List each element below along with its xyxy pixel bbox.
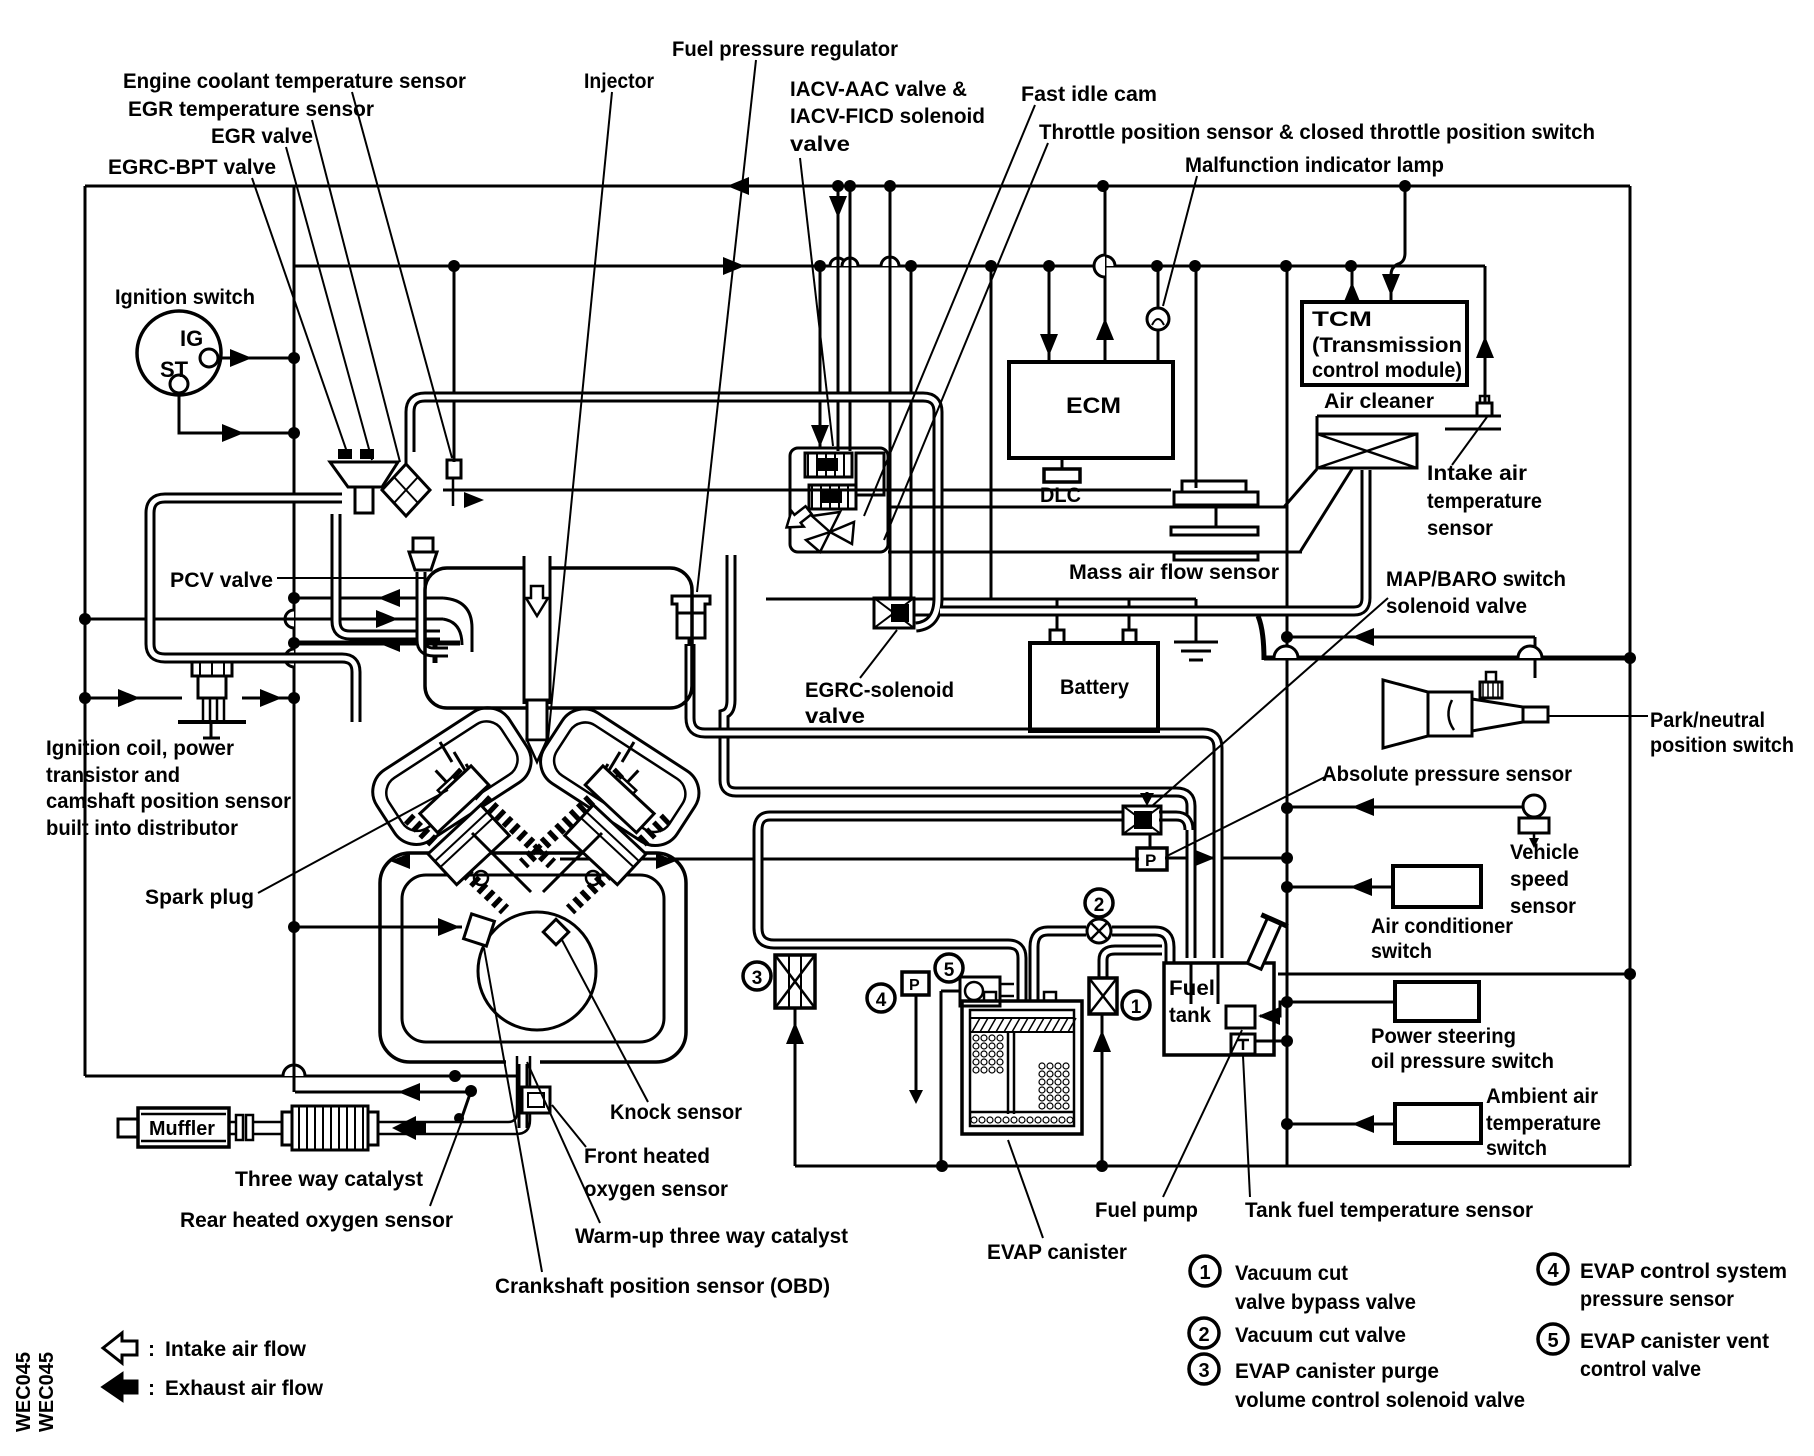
svg-text:3: 3 (1198, 1360, 1209, 1382)
ECM box (1009, 362, 1173, 458)
legend circled 4 (1538, 1254, 1568, 1284)
transmission tail shaft (1523, 707, 1548, 722)
wire x=1352 TCM to bus (1351, 267, 1354, 302)
hop of x=294 over y=658 (285, 649, 294, 667)
svg-text:1: 1 (1199, 1262, 1210, 1284)
svg-text:Three way catalyst: Three way catalyst (235, 1168, 423, 1191)
wire x=1196 to mass air flow sensor (1195, 266, 1198, 488)
svg-text:control valve: control valve (1580, 1358, 1701, 1381)
air conditioner switch box (1393, 866, 1481, 907)
EGRC-solenoid valve wire stub y=615 (913, 614, 941, 617)
tank fuel temperature sensor wire y=1041 (1255, 1040, 1287, 1043)
distributor ground bar (178, 720, 246, 724)
wire y=887 to air conditioner switch (1287, 886, 1393, 889)
leader front heated oxygen sensor (552, 1105, 586, 1147)
vapor hose canister to vacuum cut valve (1034, 931, 1086, 1001)
svg-text:1: 1 (1131, 997, 1142, 1018)
hops on y=658 (1274, 646, 1298, 658)
intake air flow white arrow at throttle (780, 502, 814, 535)
svg-text:Injector: Injector (584, 70, 654, 93)
svg-text:Mass air flow sensor: Mass air flow sensor (1069, 561, 1279, 584)
throttle body outline (790, 448, 888, 552)
MAP/BARO switch solenoid valve body (1123, 806, 1161, 834)
hop of y=1076 over x=294 (283, 1065, 305, 1076)
air cleaner element box (1317, 434, 1417, 468)
battery box (1030, 643, 1158, 731)
EGR valve stem line (405, 452, 408, 464)
leader fuel pump (1163, 1030, 1242, 1197)
circled 5 (935, 954, 963, 982)
wire y=1124 to ambient air temperature switch (1287, 1123, 1395, 1126)
junction dots on top border (832, 180, 844, 192)
wire x=1485 to intake air temperature sensor (1484, 266, 1487, 404)
svg-text:control module): control module) (1312, 359, 1462, 382)
svg-text:Knock sensor: Knock sensor (610, 1101, 742, 1124)
hops on y=266 (830, 258, 846, 266)
svg-text::: : (148, 1377, 155, 1400)
svg-text:Warm-up three way catalyst: Warm-up three way catalyst (575, 1225, 848, 1248)
vehicle speed sensor dial (1523, 795, 1545, 817)
tank fuel temperature sensor body (1231, 1034, 1255, 1054)
ground symbol right of battery (1195, 599, 1198, 642)
svg-text:Fuel: Fuel (1169, 977, 1215, 1000)
IACV-FICD solenoid (809, 485, 856, 509)
wire x=1405 top border to TCM (1391, 186, 1405, 302)
ignition switch ST terminal (170, 375, 188, 393)
duct curve to air cleaner upper (1284, 469, 1317, 507)
svg-text:sensor: sensor (1510, 895, 1576, 918)
svg-text:2: 2 (1198, 1324, 1209, 1346)
leader malfunction indicator lamp (1163, 176, 1197, 306)
svg-text:position switch: position switch (1650, 734, 1794, 757)
svg-text:IACV-FICD solenoid: IACV-FICD solenoid (790, 105, 985, 128)
EVAP canister outer shell (962, 1001, 1082, 1134)
legend exhaust air flow arrow (103, 1374, 137, 1400)
svg-text::: : (148, 1338, 155, 1361)
park/neutral position switch leader (1548, 715, 1648, 717)
svg-text:PCV valve: PCV valve (170, 569, 273, 592)
svg-text:oil pressure switch: oil pressure switch (1371, 1050, 1554, 1073)
fuel pressure regulator cap (672, 596, 710, 613)
junction dots on trunk x=1287 (1281, 631, 1293, 643)
MAP/BARO valve stub down (1149, 834, 1152, 848)
vapor hose vacuum cut valve to fuel tank (1112, 931, 1170, 963)
circled 4 (867, 984, 895, 1012)
svg-text:Ignition switch: Ignition switch (115, 286, 255, 309)
right bank valve gear (622, 742, 634, 762)
throttle position sensor block (856, 453, 884, 495)
engine coolant temperature sensor wire y=490 (443, 489, 1171, 492)
leader MAP/BARO switch solenoid valve (1152, 598, 1388, 806)
muffler shell (138, 1108, 229, 1147)
park/neutral position switch body (1480, 682, 1502, 698)
svg-text:sensor: sensor (1427, 517, 1493, 540)
svg-text:Fuel pressure regulator: Fuel pressure regulator (672, 38, 898, 61)
wire from bypass valve to bottom border (1101, 1014, 1104, 1166)
circled 3 (743, 962, 771, 990)
hop of x=1105 over y=266 (1094, 255, 1105, 277)
exhaust flow thick arrow (392, 1116, 416, 1140)
hose vacuum cut valve bypass valve to tank (1103, 950, 1162, 978)
ignition switch IG terminal (200, 349, 218, 367)
crankshaft position sensor wire y=927 (294, 926, 462, 929)
PCV valve hose (421, 572, 448, 652)
knock sensor wire y=859 (560, 858, 1139, 861)
exhaust flow arrow left side of engine (390, 853, 410, 869)
EVAP canister left charcoal dots (973, 1035, 979, 1041)
svg-text:Exhaust air flow: Exhaust air flow (165, 1377, 324, 1400)
power steering oil pressure switch box (1395, 982, 1479, 1021)
mass air flow sensor upper housing (1182, 481, 1246, 492)
intake duct top wall (888, 506, 1286, 509)
wire x=1105 from ECM to top border (1104, 186, 1107, 362)
vehicle speed sensor stem (1533, 833, 1536, 842)
wire y=974 from right border (1278, 973, 1630, 976)
air cleaner top line (1317, 415, 1501, 418)
battery supply bus y=599 (766, 598, 1196, 601)
leader EVAP canister (1008, 1140, 1043, 1238)
wire y=1002 power steering switch to fuel pump (1260, 1002, 1395, 1016)
EVAP canister vent control valve (5) (960, 977, 1000, 1006)
svg-text:Vacuum cut valve: Vacuum cut valve (1235, 1324, 1406, 1347)
air cleaner secondary line (1445, 428, 1501, 431)
svg-text:EVAP canister purge: EVAP canister purge (1235, 1360, 1439, 1383)
leader tank fuel temperature sensor (1243, 1056, 1250, 1197)
legend circled 5 (1538, 1324, 1568, 1354)
engine crankcase inner wall (402, 875, 664, 1042)
transmission body (1428, 692, 1472, 736)
distributor wire y=698 right segment (242, 697, 294, 700)
svg-text:Crankshaft position sensor (OB: Crankshaft position sensor (OBD) (495, 1275, 830, 1298)
EGRC-BPT valve diamond (382, 464, 430, 516)
leader knock sensor (562, 940, 648, 1102)
wire x=1158 through malfunction indicator lamp to ECM (1157, 266, 1160, 362)
svg-text:valve: valve (805, 705, 865, 728)
circled 2 (1085, 889, 1113, 917)
svg-text:Fuel pump: Fuel pump (1095, 1199, 1198, 1222)
legend intake air flow arrow (103, 1333, 137, 1363)
left cylinder head block (420, 766, 489, 833)
exhaust downpipe with warm-up catalyst (518, 1053, 529, 1128)
wire from purge valve to bottom border (794, 1008, 797, 1166)
distributor wire y=698 left segment (85, 697, 182, 700)
leader crankshaft position sensor (484, 948, 542, 1272)
transmission tail cone (1472, 699, 1523, 731)
svg-text:EVAP control system: EVAP control system (1580, 1260, 1787, 1283)
wire x=850 from top border to throttle body (849, 186, 852, 451)
elbow from y=658 up to intake duct (1258, 616, 1264, 660)
wire x=911 to EGRC-solenoid valve (910, 266, 913, 598)
pressure sensor sensing line (915, 995, 918, 1098)
exhaust arrow into EGR (464, 492, 484, 508)
battery negative stub (1128, 599, 1131, 630)
svg-text:solenoid valve: solenoid valve (1386, 595, 1527, 618)
engine crankcase outer wall (380, 853, 686, 1062)
svg-text:pressure sensor: pressure sensor (1580, 1288, 1734, 1311)
legend circled 1 (1190, 1256, 1220, 1286)
right intake runner (531, 699, 709, 856)
knock sensor (543, 919, 568, 944)
svg-text:volume control solenoid valve: volume control solenoid valve (1235, 1389, 1525, 1412)
svg-text:switch: switch (1371, 940, 1432, 963)
svg-text:camshaft position sensor: camshaft position sensor (46, 790, 291, 813)
duct curve to air cleaner lower (1300, 469, 1352, 552)
battery terminal right (1123, 630, 1136, 643)
svg-text:2: 2 (1094, 895, 1105, 916)
svg-text:Vacuum cut: Vacuum cut (1235, 1262, 1348, 1285)
fuel pump body (1226, 1006, 1255, 1028)
injector nozzle (527, 740, 547, 762)
arrow on top border (727, 177, 749, 195)
svg-text:EGRC-BPT valve: EGRC-BPT valve (108, 156, 276, 179)
junction dot (459,1118) (454, 1113, 464, 1123)
EGRC-solenooid valve body (874, 598, 914, 628)
vent valve drain line (941, 990, 960, 993)
MAP/BARO valve inlet stub (1146, 792, 1149, 800)
wire x=890 from top border to EGRC-solenoid valve (889, 186, 892, 598)
vacuum cut valve bypass valve (1) (1089, 978, 1117, 1014)
EVAP canister inner shell (970, 1010, 1074, 1126)
PCV valve leader (277, 577, 425, 579)
wire y=619 from left border into intake manifold (85, 618, 443, 621)
leader EGR temperature sensor (312, 120, 400, 462)
hop of x=294 over y=619 (285, 610, 294, 628)
junction dot (1630,658) (1624, 652, 1636, 664)
svg-text:Malfunction indicator lamp: Malfunction indicator lamp (1185, 154, 1444, 177)
right piston (565, 805, 646, 885)
exhaust flow arrow right side of engine (656, 853, 676, 869)
leader engine coolant temperature sensor (352, 92, 452, 458)
intake manifold collector outline (425, 568, 692, 708)
circled 1 (1122, 991, 1150, 1019)
svg-text:DLC: DLC (1040, 484, 1081, 507)
outer border left wire (84, 186, 87, 1076)
transmission bell housing (1383, 680, 1428, 748)
fast idle cam fan (812, 512, 840, 532)
wire x=991 down to battery bus (990, 266, 993, 599)
engine coolant temperature sensor probe (452, 478, 455, 506)
hose y=816 through MAP/BARO switch solenoid valve (770, 811, 1124, 822)
EVAP control system pressure sensor (4) (902, 972, 929, 995)
svg-text:Ambient air: Ambient air (1486, 1085, 1598, 1108)
EVAP canister purge volume control solenoid valve (3) (775, 955, 815, 1008)
battery terminal left (1050, 630, 1064, 643)
EVAP canister bottom dot row (971, 1117, 977, 1123)
svg-text:Spark plug: Spark plug (145, 886, 254, 909)
svg-text:Engine coolant temperature sen: Engine coolant temperature sensor (123, 70, 466, 93)
distributor cap (192, 658, 232, 676)
heavy wire y=643 into intake manifold (294, 641, 460, 646)
leader rear heated oxygen sensor (430, 1118, 463, 1206)
svg-text:P: P (1145, 851, 1156, 870)
air cleaner left wall (1316, 416, 1319, 434)
absolute pressure sensor body (1137, 848, 1167, 870)
engine coolant temperature sensor body (447, 460, 461, 478)
bottom-left horizontal wire y=1076 (85, 1075, 520, 1078)
svg-text:P: P (909, 977, 920, 994)
right vertical trunk wire x=1287 (1286, 267, 1289, 1166)
leader warm-up three way catalyst (527, 1062, 600, 1223)
ST wire (179, 393, 294, 433)
front heated oxygen sensor (522, 1087, 550, 1113)
left cylinder bank wall (408, 818, 505, 910)
svg-text:WEC045: WEC045 (13, 1352, 35, 1432)
svg-text:temperature: temperature (1486, 1112, 1601, 1135)
exhaust pipe catalyst to downpipe (378, 1121, 508, 1124)
wire y=598 into intake manifold (294, 597, 443, 600)
EVAP canister dividers (1007, 1032, 1010, 1114)
leader EGRC-solenoid valve (860, 630, 897, 678)
hose y=792 to fuel tank (736, 792, 1191, 958)
leader spark plug (258, 790, 448, 893)
transmission detail curl (1448, 700, 1454, 730)
leader throttle position sensor (884, 143, 1048, 540)
wire x=820 to IACV-AAC valve (819, 267, 822, 447)
wire x=454 to engine coolant temperature sensor (453, 266, 456, 462)
hose elbow EGRC valve bottom (916, 598, 938, 627)
svg-text:ECM: ECM (1066, 393, 1121, 418)
svg-text:transistor and: transistor and (46, 764, 180, 787)
TCM box (1302, 302, 1467, 385)
svg-text:valve: valve (790, 133, 850, 156)
svg-text:EGR valve: EGR valve (211, 125, 313, 148)
left intake runner (363, 698, 541, 855)
ambient air temperature switch box (1395, 1104, 1481, 1143)
svg-text:switch: switch (1486, 1137, 1547, 1160)
distributor ground stem (210, 724, 213, 738)
left spark plug (427, 762, 464, 799)
DLC stem (1061, 458, 1064, 469)
svg-text:IACV-AAC valve &: IACV-AAC valve & (790, 78, 967, 101)
IG wire (218, 357, 294, 360)
fuel pressure regulator nipple (688, 638, 693, 646)
exhaust pipe joint rings (236, 1115, 243, 1140)
svg-text:valve bypass valve: valve bypass valve (1235, 1291, 1416, 1314)
svg-text:temperature: temperature (1427, 490, 1542, 513)
svg-text:Fast idle cam: Fast idle cam (1021, 83, 1157, 106)
leader to exhaust pipe from y=1092 (462, 1091, 471, 1117)
svg-text:Absolute pressure sensor: Absolute pressure sensor (1322, 763, 1572, 786)
vacuum cut valve (2) inline (1087, 919, 1111, 943)
fuel filler neck (1241, 915, 1288, 972)
svg-text:4: 4 (1547, 1260, 1559, 1282)
svg-text:Tank fuel temperature sensor: Tank fuel temperature sensor (1245, 1199, 1533, 1222)
three way catalyst left ring (282, 1112, 292, 1145)
wire y=807 to vehicle speed sensor (1287, 806, 1524, 809)
svg-text:Battery: Battery (1060, 676, 1129, 699)
leader injector (548, 92, 612, 740)
svg-text:Rear heated oxygen sensor: Rear heated oxygen sensor (180, 1209, 453, 1232)
manifold inner elbow B (443, 619, 462, 645)
mass air flow sensor stem (1215, 505, 1218, 527)
leader fast idle cam (864, 105, 1035, 516)
left piston wrist pin (474, 871, 488, 885)
EVAP canister inlet stubs (984, 992, 996, 1001)
wire y=1092 to rear oxygen sensor (295, 1091, 471, 1094)
outer border top wire (85, 185, 1630, 188)
distributor body (198, 676, 226, 698)
left piston (428, 805, 509, 885)
svg-text:Park/neutral: Park/neutral (1650, 709, 1765, 732)
leader EGRC-BPT valve (252, 178, 347, 452)
mass air flow sensor middle plate (1171, 527, 1258, 535)
svg-text:5: 5 (944, 960, 955, 981)
crankshaft big circle (478, 912, 596, 1030)
arrow right on y=266 (723, 257, 745, 275)
bus wire y=266 (295, 265, 1485, 268)
svg-text:Intake air flow: Intake air flow (165, 1338, 307, 1361)
junction dot (455,1076) (449, 1070, 461, 1082)
wire x=838 from top border to throttle body (837, 186, 840, 451)
svg-text:tank: tank (1169, 1004, 1211, 1027)
legend circled 3 (1189, 1354, 1219, 1384)
wire x=1049 into ECM (1048, 266, 1051, 362)
hose from EGR valve to EGRC-solenoid valve (410, 397, 938, 598)
EVAP canister bottom plate (970, 1111, 1074, 1114)
EGR valve body (330, 462, 398, 487)
svg-text:Power steering: Power steering (1371, 1025, 1516, 1048)
intake air temperature sensor body (1477, 403, 1492, 416)
svg-text:Throttle position sensor & clo: Throttle position sensor & closed thrott… (1039, 121, 1595, 144)
hose from fuel pressure regulator y=733 to fuel tank (690, 644, 1218, 958)
junction dot (1102,1166) (1096, 1160, 1108, 1172)
intake duct bottom wall (888, 551, 1302, 554)
svg-text:Ignition coil, power: Ignition coil, power (46, 737, 234, 760)
muffler inlet stub (118, 1119, 138, 1137)
EVAP purge hose down to canister (758, 816, 1022, 1001)
heavy stub x=435 (433, 643, 438, 663)
legend circled 2 (1189, 1318, 1219, 1348)
svg-text:WEC045: WEC045 (36, 1352, 58, 1432)
svg-text:Air conditioner: Air conditioner (1371, 915, 1513, 938)
engine V-groove left (472, 833, 531, 892)
leader absolute pressure sensor (1167, 777, 1325, 856)
outer border bottom wire (795, 1165, 1630, 1168)
battery positive stub (1056, 599, 1059, 630)
fuel pressure regulator body (677, 613, 705, 638)
EVAP canister top hatched band (970, 1018, 1074, 1032)
svg-text:EVAP canister: EVAP canister (987, 1241, 1127, 1264)
svg-text:TCM: TCM (1312, 308, 1372, 331)
right cylinder bank wall (570, 818, 667, 910)
left bank valve gear (440, 742, 452, 762)
svg-text:EGRC-solenoid: EGRC-solenoid (805, 679, 954, 702)
ignition switch body (137, 311, 221, 395)
malfunction indicator lamp bulb (1147, 308, 1169, 330)
leader EGR valve (286, 147, 372, 460)
fuel tank shell (1164, 963, 1274, 1055)
svg-text:Front heated: Front heated (584, 1145, 710, 1168)
svg-text:Muffler: Muffler (149, 1118, 215, 1140)
junction dots on y=266 (448, 260, 460, 272)
manifold inner elbow A (443, 598, 472, 652)
right spark plug (610, 762, 647, 799)
fuel line inside tank A (1190, 963, 1193, 1004)
wire y=637 to park/neutral position switch (1287, 636, 1535, 639)
engine bottom outlet gap (506, 1046, 540, 1064)
svg-text:Air cleaner: Air cleaner (1324, 390, 1434, 413)
svg-text:speed: speed (1510, 868, 1569, 891)
leader IACV valve (800, 158, 833, 446)
vehicle speed sensor body (1519, 818, 1549, 833)
svg-text:(Transmission: (Transmission (1312, 334, 1462, 357)
svg-text:ST: ST (160, 357, 189, 382)
svg-text:EVAP canister vent: EVAP canister vent (1580, 1330, 1769, 1353)
hose from throttle body down to canister purge line (724, 555, 736, 792)
hose from EGR valve down to manifold (336, 514, 440, 635)
main vertical wire x=294 (293, 186, 296, 1092)
leader fuel pressure regulator (697, 60, 756, 592)
